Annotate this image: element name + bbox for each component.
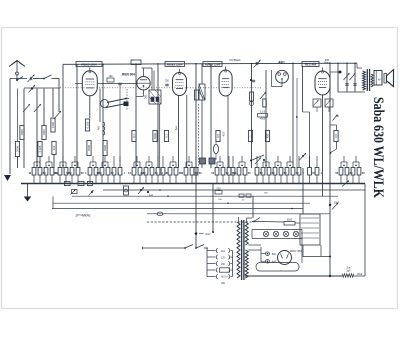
choke box b xyxy=(209,158,215,164)
filter cap 8uF b xyxy=(266,259,277,263)
resistor 310 xyxy=(52,142,56,155)
pilot oval xyxy=(157,212,163,216)
resistor 4000 xyxy=(103,141,107,156)
component 50 x229 xyxy=(227,156,235,184)
resistor 400 x267.5 xyxy=(265,131,269,142)
wire box drops xyxy=(303,245,321,257)
wire xyxy=(33,78,44,80)
svg-text:5000: 5000 xyxy=(153,133,157,139)
wire stubs xyxy=(18,89,55,169)
svg-text:4μF: 4μF xyxy=(149,194,154,197)
mains transformer primary xyxy=(237,222,240,278)
switch linkage xyxy=(126,89,128,110)
heater line xyxy=(147,213,330,215)
screen resistor xyxy=(250,92,254,106)
power bottom bus xyxy=(245,275,342,277)
grid resistor U3 xyxy=(195,90,199,100)
wire x365 xyxy=(364,184,366,277)
component pair 4 x46 xyxy=(41,156,58,184)
resistor 0,5 x336 xyxy=(334,131,338,142)
wire x59b down xyxy=(58,89,60,113)
wire x253 down xyxy=(252,196,254,218)
bus series box a xyxy=(65,181,71,185)
capacitor 250 xyxy=(165,80,170,86)
resistor 0,5 x218 xyxy=(216,131,220,142)
junction dot 330/276 xyxy=(329,275,331,277)
svg-text:0,1: 0,1 xyxy=(128,172,132,175)
svg-text:0,185: 0,185 xyxy=(85,121,89,128)
rail x196 xyxy=(195,64,197,248)
svg-text:40μ: 40μ xyxy=(54,172,59,175)
resistor 5000 x155 xyxy=(153,131,157,142)
variable core L1 xyxy=(23,104,30,112)
signal wire U1-U2 xyxy=(97,83,137,85)
svg-text:RENS 1264: RENS 1264 xyxy=(81,62,97,66)
component pair 1 x263 xyxy=(258,156,275,184)
resistor 1500 xyxy=(51,118,55,132)
transformer sec upper xyxy=(245,222,248,245)
osc dashed linkage xyxy=(198,104,200,168)
svg-text:310: 310 xyxy=(52,145,56,150)
svg-text:2000: 2000 xyxy=(87,145,91,151)
choke box a xyxy=(200,158,206,164)
svg-text:0,5: 0,5 xyxy=(334,134,338,138)
junction dot 340 xyxy=(330,71,342,74)
trimmer on bus xyxy=(254,60,261,68)
label 845 Blau xyxy=(324,59,330,65)
component 50 x257 xyxy=(255,156,263,184)
svg-text:W: W xyxy=(378,78,381,82)
tube U3 cathode wire xyxy=(176,96,179,169)
rectifier U7 RGN 354 xyxy=(278,251,292,265)
svg-text:8μF: 8μF xyxy=(272,261,277,264)
component pair 40μ x60 xyxy=(54,156,73,184)
rail x158 xyxy=(157,64,159,168)
label 2P48 xyxy=(74,214,91,218)
wire x44 down xyxy=(43,89,45,126)
component 50 x196 xyxy=(194,156,202,184)
transformer top leads xyxy=(239,217,253,222)
svg-text:1500: 1500 xyxy=(51,122,55,128)
resistor 1 x250.5 xyxy=(248,131,252,142)
svg-text:REN 904: REN 904 xyxy=(122,73,135,77)
wire x338 xyxy=(337,63,339,92)
tube U5 label AB 1 xyxy=(278,60,285,64)
component 1 x233 xyxy=(231,156,238,184)
component 1 x158 xyxy=(156,156,163,184)
component 1 x317 xyxy=(315,156,322,184)
rail x266 xyxy=(265,70,267,168)
rail x136 xyxy=(135,64,137,168)
switch S1 xyxy=(43,75,59,79)
sub bus 190 xyxy=(103,189,365,191)
osc coil xyxy=(199,84,205,100)
svg-text:Netz: Netz xyxy=(205,233,211,236)
coupling cap right xyxy=(300,153,307,160)
component 1 x120 xyxy=(118,156,125,184)
wire x24 down xyxy=(23,89,25,169)
component pair 0,1 x239 xyxy=(233,156,251,184)
tone cap a xyxy=(344,73,350,80)
label 45 xyxy=(333,115,340,121)
tube U4 RENS 1264 xyxy=(203,62,232,97)
sub bus 196 xyxy=(72,195,338,197)
tube U2 REN 904 xyxy=(137,68,152,96)
svg-text:0,5: 0,5 xyxy=(216,134,220,138)
svg-text:50μF: 50μF xyxy=(334,202,340,205)
svg-text:4μα: 4μα xyxy=(176,125,178,130)
component pair 50 x217 xyxy=(211,156,229,184)
svg-text:4000: 4000 xyxy=(260,118,266,121)
cathode hook xyxy=(136,96,144,98)
svg-text:60 V A: 60 V A xyxy=(221,276,228,279)
svg-text:2000: 2000 xyxy=(15,146,19,152)
component pair 40 x102 xyxy=(96,156,114,184)
mains switch xyxy=(184,245,193,249)
svg-text:500: 500 xyxy=(217,188,222,191)
rail x322 xyxy=(322,95,324,196)
wire x213 down xyxy=(212,184,214,234)
rect heater loop xyxy=(256,263,299,272)
resistor 2000 a xyxy=(15,142,19,157)
selector box right xyxy=(300,214,320,245)
IF transformer box xyxy=(144,90,161,104)
wire x100 xyxy=(99,89,101,123)
dial lamps xyxy=(263,231,298,236)
wire x303 upper xyxy=(302,66,304,214)
component 5 x114 xyxy=(112,156,119,184)
resistor 500 xyxy=(215,188,222,195)
bus junction dots xyxy=(102,62,356,64)
below-bus label b xyxy=(264,193,268,195)
bus series box b xyxy=(78,181,84,185)
transformer sec lower xyxy=(245,250,248,278)
component pair 2μ x146 xyxy=(140,156,158,184)
cap cluster xyxy=(138,187,154,197)
component 5 x163 xyxy=(161,156,168,184)
svg-text:5000: 5000 xyxy=(287,219,293,222)
left hook xyxy=(52,196,54,208)
IF sec lead xyxy=(153,71,155,91)
output transformer secondary xyxy=(371,74,373,87)
antenna coupling circle xyxy=(16,72,19,79)
filter cap 8uF a xyxy=(266,252,277,256)
sub bus 208 xyxy=(52,208,303,210)
speaker cone xyxy=(384,70,394,87)
hv taps xyxy=(248,245,261,250)
tube U1 cathode wire xyxy=(89,96,91,118)
boxes 50 xyxy=(239,194,251,202)
component pair 1 x90 xyxy=(85,156,102,184)
component pair 2 x353 xyxy=(348,156,365,184)
svg-text:0,1/5: 0,1/5 xyxy=(260,111,266,114)
tone switch xyxy=(250,155,265,164)
tone cap b xyxy=(350,73,356,80)
switch mid right xyxy=(342,181,349,187)
band switch a xyxy=(107,98,129,103)
junction 330 switch xyxy=(329,202,340,210)
band switch hub xyxy=(101,100,109,108)
tube U3 RENS 1264 xyxy=(165,62,187,96)
svg-text:100: 100 xyxy=(109,75,114,78)
wire x53 down xyxy=(52,89,54,118)
wire antenna bus xyxy=(10,78,27,80)
field coil resistor xyxy=(342,274,365,277)
svg-text:RENS 1264: RENS 1264 xyxy=(205,62,221,66)
rail x103 xyxy=(102,64,104,168)
variable core L3 xyxy=(54,111,61,119)
component pair 40 x34 xyxy=(28,156,46,184)
resistor 1000 a xyxy=(20,126,24,140)
wire y257 xyxy=(303,256,331,258)
wire x37 down xyxy=(36,89,38,169)
component pair 50 x186 xyxy=(180,156,198,184)
output net bottom xyxy=(338,91,365,93)
U3 grid return xyxy=(186,95,188,168)
wire to transformer xyxy=(357,63,362,68)
below-bus tick a xyxy=(159,189,169,197)
grid leak xyxy=(263,99,267,107)
svg-text:0,185: 0,185 xyxy=(38,145,42,152)
resistor 2000 c xyxy=(87,141,91,156)
component 2 x299 xyxy=(297,156,304,184)
cap marks xyxy=(345,84,356,86)
component pair 1 x287 xyxy=(282,156,299,184)
IF out lead xyxy=(159,104,161,168)
rail x251 xyxy=(251,64,253,168)
rail x209 xyxy=(210,64,212,168)
component pair 2 x275 xyxy=(270,156,287,184)
speaker magnet box xyxy=(374,71,382,86)
resistor 0,185 b xyxy=(85,119,89,131)
wire x309 xyxy=(296,112,310,168)
resistor 0,1 x166.5 xyxy=(164,131,168,142)
component 50 x309.5 xyxy=(308,156,316,184)
lamp symbol xyxy=(213,140,218,160)
svg-text:2P=48kHz: 2P=48kHz xyxy=(74,214,91,218)
bus y88 xyxy=(24,87,60,89)
wire rect caps xyxy=(261,247,266,262)
variable core L2 xyxy=(34,104,41,112)
voltage selector ladder xyxy=(207,248,233,279)
mains lead xyxy=(143,247,186,250)
transformer core xyxy=(242,220,244,280)
tube U2 label REN 904 xyxy=(122,73,135,77)
lamp box drop xyxy=(301,239,303,263)
ground symbol xyxy=(24,193,32,202)
component pair 40 x170 xyxy=(164,156,182,184)
junction netz xyxy=(195,232,212,236)
tube U4 cathode wire xyxy=(224,96,229,168)
svg-text:Dril.Blank: Dril.Blank xyxy=(229,58,241,62)
label Dril Blank xyxy=(229,58,241,62)
svg-text:RGN 354: RGN 354 xyxy=(290,249,302,253)
diode arrow xyxy=(260,92,266,99)
component pair 0,1 x134 xyxy=(128,156,146,184)
below-bus tick b xyxy=(227,202,293,209)
trimmer capacitor C1 xyxy=(28,75,35,83)
svg-text:4000: 4000 xyxy=(103,145,107,151)
osc coil top lead xyxy=(201,64,203,168)
dashed bus 222 xyxy=(147,221,252,223)
label Zur xyxy=(346,267,351,273)
wire down x59 xyxy=(58,79,60,89)
below-bus comp a xyxy=(71,189,78,194)
wire 0,5 chain xyxy=(330,125,337,154)
svg-text:1000: 1000 xyxy=(20,129,24,135)
capacitor 100 box xyxy=(107,75,114,82)
netz switch cluster xyxy=(252,218,284,223)
wave-switch box on bus xyxy=(131,60,141,65)
rail x293 xyxy=(292,63,294,169)
svg-text:4,5V: 4,5V xyxy=(224,131,226,136)
wire x355 xyxy=(354,63,356,92)
svg-text:2μ: 2μ xyxy=(140,172,143,175)
resistor 0,1/5 xyxy=(258,111,268,121)
svg-text:300: 300 xyxy=(144,94,147,99)
fuse box xyxy=(220,268,230,279)
HT top bus xyxy=(63,63,357,64)
rail x63 xyxy=(62,64,64,168)
label DKE xyxy=(357,273,363,276)
svg-text:-DKE: -DKE xyxy=(357,273,363,276)
lamp bus box xyxy=(252,230,302,239)
svg-text:2μF: 2μF xyxy=(346,270,351,273)
wire left drop xyxy=(9,79,11,175)
capacitor C2 xyxy=(29,85,36,93)
svg-text:0,1: 0,1 xyxy=(164,134,168,138)
tube U1 RENS 1264 xyxy=(76,62,102,96)
selector labels xyxy=(221,251,226,285)
band switch b xyxy=(106,102,129,108)
rail x330 xyxy=(329,63,331,276)
component pair 50 x72 xyxy=(66,156,84,184)
label RGN 354 xyxy=(290,249,302,253)
earth terminal xyxy=(4,175,11,181)
resistor 5000 horiz xyxy=(284,219,300,226)
below-bus label a xyxy=(218,199,222,201)
bus series box c xyxy=(88,181,93,185)
tube U5 AB 1 xyxy=(272,70,289,87)
ground lead xyxy=(27,184,29,193)
AVC dotted line xyxy=(60,87,262,89)
chassis main bus xyxy=(21,183,365,185)
svg-text:1000: 1000 xyxy=(42,129,46,135)
svg-text:AB1: AB1 xyxy=(278,60,285,64)
output transformer primary xyxy=(363,71,366,90)
component pair 50 x341 xyxy=(335,156,353,184)
tube U6 RES 964 xyxy=(302,62,330,96)
tone network boxes xyxy=(313,99,333,112)
antenna switch xyxy=(16,77,23,82)
svg-text:Saba 630 WL/WLK: Saba 630 WL/WLK xyxy=(370,97,386,199)
below-bus comp b xyxy=(89,190,94,196)
inductor bumps xyxy=(99,122,105,135)
resistor 0,185 xyxy=(38,142,42,157)
signal wire into U1 xyxy=(75,83,82,85)
title Saba 630 WL/WLK xyxy=(370,97,386,199)
grid cap xyxy=(118,83,121,168)
output transformer core xyxy=(367,69,369,91)
electrolytic cap 4u xyxy=(124,186,129,195)
sub bus 202 xyxy=(53,202,310,204)
svg-text:400: 400 xyxy=(265,133,269,138)
rail x77 xyxy=(76,64,78,168)
svg-text:250: 250 xyxy=(165,80,170,83)
wire x347 xyxy=(346,63,348,92)
svg-text:Blau: Blau xyxy=(324,61,330,64)
svg-text:RENS 1264: RENS 1264 xyxy=(167,62,183,66)
mains switch b xyxy=(195,245,208,249)
svg-text:8μF: 8μF xyxy=(272,253,277,256)
rail x297 xyxy=(296,78,298,168)
resistor 0,1 x134 xyxy=(132,131,136,142)
capacitor c xyxy=(250,79,255,82)
resistor 1000 b xyxy=(42,126,46,140)
antenna A xyxy=(9,61,25,73)
svg-text:0,1: 0,1 xyxy=(132,134,136,138)
svg-text:RES 964: RES 964 xyxy=(305,62,317,66)
